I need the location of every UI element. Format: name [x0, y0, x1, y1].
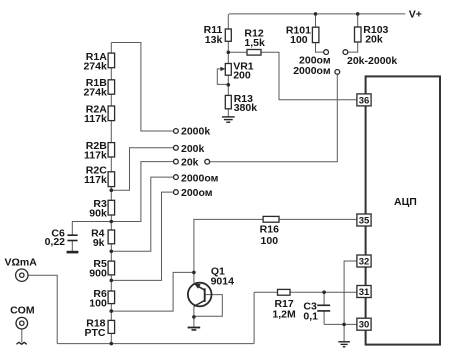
svg-text:V+: V+	[409, 9, 422, 21]
wire bottom rail	[57, 343, 254, 345]
junction C3 top / pin31 line	[322, 290, 326, 294]
wire R11/VR1/R13 vertical branch	[227, 14, 229, 117]
switch contact below R101	[324, 50, 329, 55]
svg-text:20k: 20k	[365, 34, 383, 46]
svg-text:1,5k: 1,5k	[244, 37, 265, 49]
svg-text:2000k: 2000k	[181, 125, 210, 137]
resistor R2A	[84, 103, 115, 125]
potentiometer VR1	[220, 60, 253, 81]
junction R18/bottom rail	[110, 342, 114, 346]
wire 2000om tap to R4/R5 junction	[111, 177, 173, 251]
junction below VR1	[227, 83, 231, 87]
wire C3 bottom stub	[323, 311, 325, 324]
wire bottom rail up to R17 line	[253, 292, 255, 343]
switch contact right of 20k	[205, 159, 210, 164]
pin 36	[357, 94, 371, 107]
junction R3/R4	[110, 220, 114, 224]
resistor R2B	[84, 140, 115, 162]
svg-text:2000ом: 2000ом	[293, 65, 331, 77]
pin 35	[357, 214, 371, 226]
wire R12 left stub	[228, 51, 247, 53]
transistor Q1	[188, 265, 234, 306]
ground below Q1	[188, 328, 201, 330]
wire 200k tap to R2C/R3 junction	[111, 148, 173, 190]
resistor R101	[286, 25, 319, 47]
capacitor C6	[45, 227, 78, 248]
ground below C6	[67, 251, 79, 254]
svg-text:100: 100	[290, 34, 308, 46]
svg-text:2000ом: 2000ом	[181, 172, 219, 184]
svg-text:90k: 90k	[89, 208, 107, 220]
svg-text:R16: R16	[260, 223, 279, 235]
resistor R103	[355, 24, 389, 46]
svg-text:АЦП: АЦП	[394, 196, 417, 208]
ground below R13	[222, 117, 235, 122]
svg-text:20k: 20k	[181, 157, 199, 169]
resistor R1A	[83, 51, 114, 72]
svg-text:274k: 274k	[83, 87, 107, 99]
wire pin 30 line	[324, 323, 357, 325]
wire C6 branch	[72, 222, 111, 236]
resistor R6	[89, 288, 114, 310]
wire pin 32 to ground	[344, 261, 357, 341]
junction rail R101	[314, 12, 318, 16]
terminal circle 2000om line	[335, 70, 340, 75]
tap circle 200om	[174, 190, 179, 195]
junction Q1 emitter node	[192, 315, 196, 319]
wire left divider chain vertical	[110, 43, 112, 344]
resistor R4	[91, 227, 115, 249]
svg-text:32: 32	[359, 256, 370, 267]
tap circle 20k	[174, 159, 179, 164]
svg-text:200ом: 200ом	[181, 187, 213, 199]
svg-text:31: 31	[359, 287, 370, 298]
wire R6/R18 junction to Q1 collector node	[111, 272, 194, 311]
svg-text:35: 35	[359, 215, 370, 226]
wire C6 bottom to ground	[71, 241, 73, 251]
wire C3 top stub	[323, 292, 325, 305]
svg-text:9k: 9k	[93, 237, 105, 249]
svg-text:100: 100	[261, 235, 279, 247]
svg-text:900: 900	[89, 268, 107, 280]
wire VR1 wiper to lower terminal	[217, 69, 228, 85]
wire COM terminal stub	[21, 329, 23, 342]
svg-text:COM: COM	[10, 304, 35, 316]
switch contact below R103	[343, 50, 348, 55]
wire R103 branch from rail to switch contact	[348, 14, 358, 52]
resistor R2C	[84, 164, 115, 186]
svg-text:9014: 9014	[211, 276, 235, 288]
svg-text:0,1: 0,1	[303, 311, 318, 323]
junction R6/R18	[110, 309, 114, 313]
svg-text:200k: 200k	[181, 143, 205, 155]
terminal VOmA	[5, 257, 38, 282]
tap circle 2000om	[174, 175, 179, 180]
wire VOmA terminal to bottom rail	[28, 275, 57, 343]
wire Q1 collector node up and right to pin 35	[194, 219, 357, 283]
junction rail R103	[356, 12, 360, 16]
svg-text:100: 100	[89, 298, 107, 310]
pin 30	[357, 318, 371, 330]
wire R17 line to pin 31	[254, 291, 357, 293]
tap circle 2000k	[174, 129, 179, 134]
ground right of ADC bottom	[338, 342, 350, 347]
wire 200om tap to R5/R6 junction	[111, 192, 173, 280]
pin 32	[357, 255, 371, 267]
chassis squiggle below COM	[17, 342, 27, 344]
op-amp U1 ADC block	[366, 76, 440, 344]
svg-text:117k: 117k	[84, 174, 107, 186]
wire 20k tap to R3/R4 junction	[111, 162, 173, 222]
wire 20k-2000k terminal down and left to 20k switch contact	[210, 74, 338, 161]
junction Q1 collector node	[192, 271, 196, 275]
capacitor C3	[303, 300, 330, 322]
svg-text:36: 36	[359, 95, 370, 106]
resistor R16	[260, 216, 279, 247]
svg-text:0,22: 0,22	[45, 236, 66, 248]
svg-text:VΩmA: VΩmA	[5, 257, 38, 269]
resistor R12	[244, 28, 265, 56]
junction R4/R5	[110, 250, 114, 254]
resistor R5	[89, 258, 114, 280]
resistor R18 PTC	[85, 318, 115, 340]
svg-text:1,2M: 1,2M	[272, 309, 296, 321]
svg-text:PTC: PTC	[85, 327, 106, 339]
svg-text:274k: 274k	[83, 60, 107, 72]
junction pin30 line / ground line	[342, 323, 346, 327]
svg-text:30: 30	[359, 320, 370, 331]
wire R101 branch from rail to switch contact	[316, 14, 324, 52]
resistor R17	[272, 289, 296, 320]
resistor R11	[204, 24, 232, 46]
wire R12 to pin 36	[261, 52, 357, 99]
wire chain top to 2000k tap	[111, 43, 173, 132]
svg-text:200: 200	[233, 69, 251, 81]
wire Q1 emitter to ground	[193, 306, 195, 327]
pin 31	[357, 286, 371, 298]
terminal COM	[10, 304, 35, 329]
resistor R3	[89, 198, 114, 220]
junction R5/R6	[110, 279, 114, 283]
resistor R1B	[83, 77, 114, 99]
svg-text:117k: 117k	[84, 149, 107, 161]
junction below R11	[227, 51, 231, 55]
svg-text:117k: 117k	[84, 113, 107, 125]
resistor R13	[225, 93, 257, 114]
svg-text:20k-2000k: 20k-2000k	[347, 55, 397, 67]
node label 200om / 2000om	[293, 55, 331, 77]
wire Q1 base loop to emitter	[194, 295, 222, 317]
wire V+ top rail	[229, 13, 405, 15]
junction R2C/R3	[110, 188, 114, 192]
tap circle 200k	[174, 145, 179, 150]
svg-text:380k: 380k	[234, 102, 258, 114]
svg-text:13k: 13k	[205, 34, 223, 46]
